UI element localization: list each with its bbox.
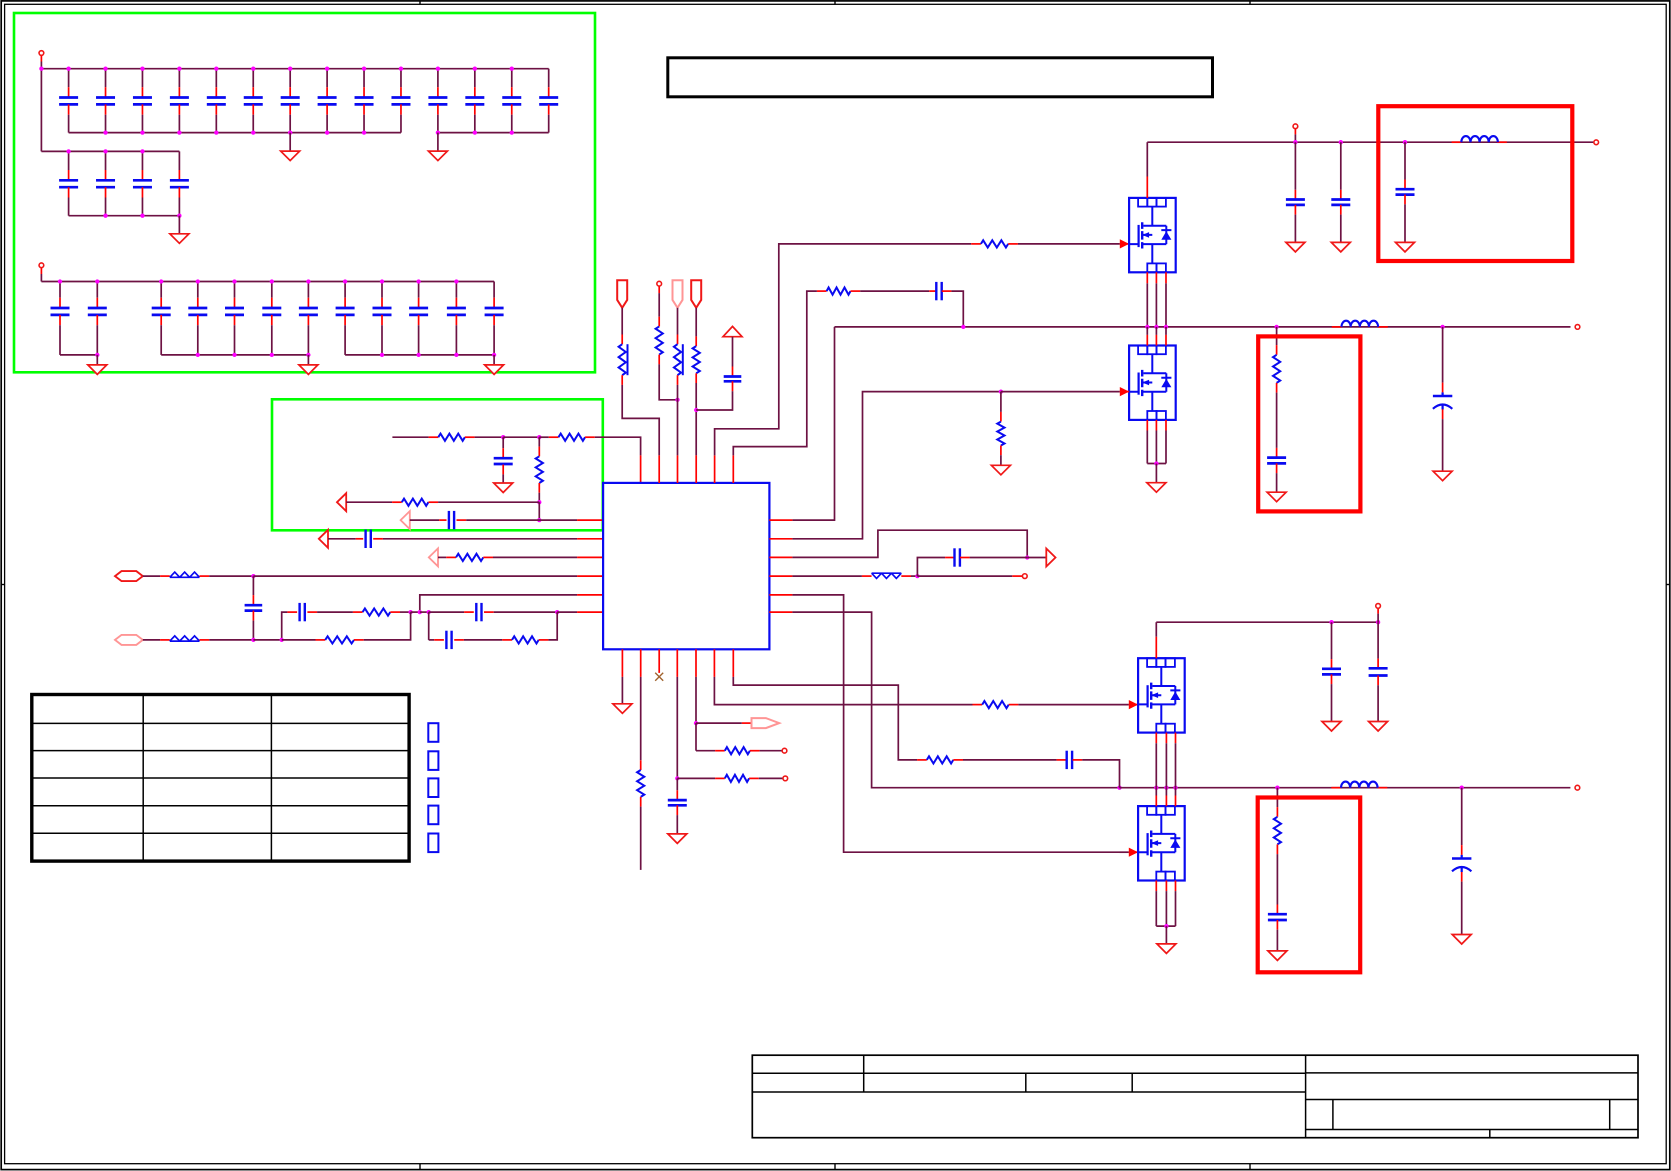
wire: [252, 576, 254, 595]
capacitor C10: [400, 69, 402, 88]
capacitor C50: [1268, 914, 1287, 920]
IC pin B7: [732, 649, 734, 677]
junction: [140, 130, 144, 134]
ground GND11: [991, 465, 1010, 475]
junction: [473, 130, 477, 134]
IC pin T3: [677, 455, 679, 483]
wire: [860, 290, 929, 292]
wire: row1 bottom bus B: [438, 132, 549, 134]
wire: [917, 575, 1012, 577]
wire: VIN2 to Q3 drain: [1155, 622, 1157, 637]
capacitor C11: [437, 69, 439, 88]
terminal TP4: [1293, 124, 1298, 129]
IC pin B4: [676, 649, 678, 677]
wire: ground stem: [307, 355, 309, 365]
capacitor C30: [493, 282, 495, 298]
wire: [548, 612, 557, 640]
revision table: [32, 695, 409, 862]
wire: [1165, 283, 1167, 327]
wire: [1018, 243, 1120, 245]
wire: [1018, 704, 1128, 706]
junction: [39, 67, 43, 71]
capacitor C3: [141, 69, 143, 88]
wire: [1155, 743, 1157, 788]
resistor R13: [981, 240, 1008, 247]
transistor Q3 (high-side buck2): [1138, 658, 1185, 732]
junction: [418, 610, 422, 614]
wire: row3 bottom bus C: [345, 354, 494, 356]
junction: [915, 574, 919, 578]
IC pin L5: [577, 594, 603, 596]
wire: [1331, 622, 1333, 659]
wire: row3 bottom bus A: [60, 354, 97, 356]
red highlight box 1 (output filter): [1378, 106, 1572, 261]
IC U1 (buck controller): [603, 483, 769, 649]
wire: [658, 287, 660, 294]
Q2 drain pins from SW rail: [1146, 327, 1148, 335]
capacitor C37: [446, 631, 451, 649]
capacitor C27: [381, 282, 383, 298]
capacitor C16: [105, 151, 107, 170]
ground GND13: [1267, 492, 1286, 502]
wire: [410, 519, 439, 521]
capacitor C21: [160, 282, 162, 298]
capacitor C44 (polarized): [1433, 392, 1452, 409]
power flag F3: [691, 280, 701, 308]
resistor R8: [512, 636, 539, 643]
transistor Q4 (low-side buck2): [1138, 806, 1185, 880]
capacitor C31: [494, 458, 513, 464]
capacitor C9: [363, 69, 365, 88]
wire: boot1 net: [733, 291, 817, 455]
transistor Q2 (low-side buck1): [1129, 346, 1176, 420]
Q1 source pins: [1146, 272, 1148, 283]
resistor R11: [674, 344, 681, 375]
capacitor C33: [366, 530, 371, 548]
resistor R9: [619, 344, 626, 375]
ground GND14: [1433, 471, 1452, 481]
IC pin R5: [769, 594, 792, 596]
capacitor C12: [474, 69, 476, 88]
junction: [362, 67, 366, 71]
wire: TP1 stub: [40, 56, 42, 62]
junction: [694, 408, 698, 412]
IC pin T4: [695, 455, 697, 483]
wire: row3 top bus: [41, 281, 494, 283]
inductor L2 red stubs: [1332, 326, 1342, 328]
ground GND4: [88, 365, 107, 375]
wire: [317, 611, 353, 613]
wire: TP2 stub: [40, 268, 42, 274]
junction: [380, 279, 384, 283]
resistor R14: [827, 288, 851, 295]
off-page connector P1: [115, 571, 143, 581]
junction: [280, 638, 284, 642]
capacitor C22: [197, 282, 199, 298]
IC pin T5: [714, 455, 716, 483]
inductor L3: [1341, 782, 1378, 788]
wire: [1155, 464, 1157, 483]
terminal TP6: [783, 776, 788, 781]
capacitor C46: [668, 800, 687, 805]
junction: [214, 130, 218, 134]
Q4 source pins: [1155, 881, 1157, 892]
wire: [1165, 891, 1167, 926]
wire: left drop to row2: [40, 69, 42, 152]
ground GND1: [281, 151, 300, 161]
junction: [961, 325, 965, 329]
wire: [1146, 283, 1148, 327]
wire: to IC pin L1: [466, 519, 577, 521]
wire: feedback divider VOUT1: [1276, 327, 1278, 345]
transistor Q1 (high-side buck1): [1129, 198, 1176, 272]
ferrite bead FB2: [170, 636, 200, 641]
IC pin B3: [658, 649, 660, 673]
capacitor C24: [271, 282, 273, 298]
capacitor C49: [1369, 668, 1388, 675]
wire: VIN1 top bus row1: [41, 68, 548, 70]
capacitor C36: [476, 603, 481, 621]
arrow marker A5: [1046, 549, 1055, 567]
wire: [696, 722, 742, 724]
junction: [251, 130, 255, 134]
wire: [732, 337, 734, 367]
wire: [143, 639, 160, 641]
junction: [436, 67, 440, 71]
junction: [159, 279, 163, 283]
wire: to IC pin L5: [420, 595, 577, 612]
IC pin L2: [577, 538, 603, 540]
capacitor C18: [178, 151, 180, 170]
junction: [196, 353, 200, 357]
capacitor C2: [105, 69, 107, 88]
resistor R18: [725, 775, 749, 782]
wire: [538, 502, 540, 520]
capacitor C42: [1396, 189, 1415, 194]
terminal TP8: [1376, 604, 1381, 609]
junction: [362, 130, 366, 134]
capacitor C1: [68, 69, 70, 88]
wire: SW1 rail: [835, 326, 1571, 328]
wire: [1294, 142, 1296, 190]
wire: SW2 rail: [1120, 787, 1571, 789]
wire: [143, 575, 160, 577]
wire: [963, 759, 1057, 761]
wire: gate LS1 net: [792, 392, 1001, 539]
wire: [695, 308, 697, 337]
arrow marker A4: [429, 548, 438, 566]
wire: SW1 sense to IC pin R1: [792, 327, 834, 520]
capacitor C51 (polarized): [1452, 855, 1471, 872]
capacitor C7: [289, 69, 291, 88]
junction: [510, 130, 514, 134]
wire: boot2 net: [733, 677, 917, 760]
gate pin arrow Q4: [1129, 848, 1138, 857]
capacitor C25: [307, 282, 309, 298]
junction: [1164, 325, 1168, 329]
wire: [659, 364, 677, 400]
resistor R3: [536, 456, 543, 483]
junction: [1154, 325, 1158, 329]
terminal VOUT2: [1575, 785, 1580, 790]
inductor L1: [1461, 136, 1498, 142]
junction: [325, 67, 329, 71]
wire: [209, 575, 253, 577]
capacitor C5: [215, 69, 217, 88]
wire: [428, 612, 430, 640]
wire: VIN to Q1 drain: [1146, 142, 1148, 176]
wire: [1155, 283, 1157, 327]
capacitor C6: [252, 69, 254, 88]
junction: [1440, 325, 1444, 329]
wire: ground stem: [96, 355, 98, 365]
ground GND5: [299, 365, 318, 375]
wire: output cap 2: [1461, 788, 1463, 845]
junction: [1329, 620, 1333, 624]
junction: [510, 67, 514, 71]
wire: [1120, 851, 1129, 853]
junction: [537, 500, 541, 504]
junction: [270, 279, 274, 283]
capacitor C32: [449, 511, 454, 529]
wire: SW2 sense net: [792, 612, 1119, 788]
wire: [621, 677, 623, 704]
junction: [1154, 786, 1158, 790]
resistor R17: [637, 770, 644, 797]
junction: [177, 67, 181, 71]
wire: [1340, 142, 1342, 190]
wire: [282, 639, 316, 641]
junction: [999, 389, 1003, 393]
wire: [677, 385, 679, 456]
junction: [1164, 924, 1168, 928]
wire: [1404, 142, 1406, 179]
terminal TP3: [657, 281, 662, 286]
wire: [696, 750, 715, 752]
wire: to IC pin L6: [557, 611, 577, 613]
junction: [177, 214, 181, 218]
capacitor C14: [548, 69, 550, 88]
wire: [539, 436, 549, 438]
wire: comp out net: [792, 530, 1027, 557]
junction: [196, 279, 200, 283]
resistor R19: [725, 747, 750, 754]
junction: [408, 610, 412, 614]
wire: [1175, 891, 1177, 926]
wire: gate HS1 net: [715, 244, 972, 456]
arrow marker A1: [337, 493, 346, 511]
wire: [1001, 391, 1120, 393]
junction: [251, 638, 255, 642]
wire: [502, 437, 504, 448]
terminal TP1: [39, 51, 44, 56]
wire: row3 bottom bus B: [161, 354, 308, 356]
ferrite bead FB3: [872, 573, 902, 578]
junction: [675, 776, 679, 780]
junction: [436, 130, 440, 134]
gate pin arrow Q1: [1120, 239, 1129, 248]
junction: [501, 435, 505, 439]
terminal VIN1: [1594, 140, 1599, 145]
power symbol VCC: [723, 326, 742, 336]
wire: comp row: [392, 436, 428, 438]
power flag F1: [617, 280, 627, 308]
wire: [695, 383, 697, 455]
green highlight box 1 (input decoupling caps): [14, 13, 595, 372]
terminal TP2: [39, 263, 44, 268]
junction: [1275, 786, 1279, 790]
inductor L1 red stubs: [1452, 141, 1462, 143]
capacitor C41: [1331, 200, 1350, 205]
resistor R2: [559, 434, 586, 441]
wire: row1 bottom bus A: [69, 132, 401, 134]
terminal TP7: [782, 748, 787, 753]
capacitor C29: [455, 282, 457, 298]
capacitor C47: [1067, 751, 1072, 769]
IC pin T6: [732, 455, 734, 483]
junction: [103, 214, 107, 218]
resistor R15: [997, 422, 1004, 446]
junction: [140, 214, 144, 218]
inductor L2: [1342, 321, 1379, 327]
junction: [380, 353, 384, 357]
wire: [1082, 760, 1119, 788]
wire: gate pulldown: [1000, 392, 1002, 412]
wire: [951, 291, 963, 327]
junction: [1403, 140, 1407, 144]
wire: feedback divider VOUT2: [1276, 788, 1278, 807]
ground GND9: [1331, 242, 1350, 252]
wire: [640, 677, 642, 760]
gate pin arrow Q3: [1129, 700, 1138, 709]
junction: [537, 435, 541, 439]
IC pin T1: [640, 455, 642, 483]
junction: [103, 130, 107, 134]
inductor L3 red stubs: [1331, 787, 1341, 789]
junction: [454, 279, 458, 283]
junction: [140, 149, 144, 153]
wire: [494, 611, 558, 613]
capacitor C20: [96, 282, 98, 298]
IC pin R1: [769, 519, 792, 521]
wire: [621, 308, 623, 335]
capacitor C15: [68, 151, 70, 170]
junction: [288, 67, 292, 71]
capacitor C38: [724, 377, 742, 382]
capacitor C13: [511, 69, 513, 88]
junction: [306, 279, 310, 283]
terminal VOUT1: [1575, 325, 1580, 330]
ferrite bead FB1: [170, 572, 200, 577]
junction: [555, 610, 559, 614]
wire: [253, 639, 281, 641]
wire: ground stem: [289, 133, 291, 152]
IC pin R3: [769, 556, 792, 558]
wire: row2 top bus: [41, 150, 179, 152]
wire: Q2 source join: [1147, 463, 1166, 465]
junction: [270, 353, 274, 357]
junction: [1339, 140, 1343, 144]
resistor R7: [325, 636, 354, 643]
junction: [214, 67, 218, 71]
wire: [1155, 891, 1157, 926]
wire: [622, 385, 659, 456]
off-page connector P2: [115, 635, 143, 645]
capacitor C26: [344, 282, 346, 298]
junction: [343, 279, 347, 283]
IC pin L4: [577, 575, 603, 577]
junction: [427, 610, 431, 614]
capacitor C8: [326, 69, 328, 88]
wire: [1276, 854, 1278, 904]
IC pin L3: [577, 556, 603, 558]
junction: [1154, 461, 1158, 465]
junction: [416, 279, 420, 283]
IC pin L6: [577, 611, 603, 613]
gate pin arrow Q2: [1120, 387, 1129, 396]
resistor R12: [693, 346, 700, 373]
junction: [306, 353, 310, 357]
junction: [1274, 325, 1278, 329]
resistor R4: [402, 499, 429, 506]
IC pin R6: [769, 611, 792, 613]
wire: [917, 558, 945, 577]
junction: [473, 67, 477, 71]
wire: [346, 501, 392, 503]
junction: [1293, 140, 1297, 144]
junction: [95, 353, 99, 357]
wire: [677, 308, 679, 335]
no-connect X: [655, 673, 663, 681]
signal flag F4: [752, 718, 780, 728]
wire: [1146, 431, 1148, 464]
capacitor C48: [1322, 669, 1341, 675]
ground GND18: [1369, 722, 1388, 732]
capacitor C23: [234, 282, 236, 298]
wire: VIN2 rail: [1156, 621, 1378, 623]
wire: [538, 437, 540, 446]
wire: [1294, 129, 1296, 134]
resistor R21: [927, 756, 954, 763]
junction: [232, 353, 236, 357]
capacitor C17: [141, 151, 143, 170]
wire: to IC pin L4: [253, 575, 577, 577]
junction: [1460, 786, 1464, 790]
wire: [438, 556, 446, 558]
IC pin L1: [577, 519, 603, 521]
ground GND16: [668, 834, 687, 844]
wire: [464, 639, 502, 641]
ground GND20: [1268, 951, 1287, 961]
junction: [103, 67, 107, 71]
capacitor C4: [178, 69, 180, 88]
junction: [251, 574, 255, 578]
ground GND8: [1286, 242, 1305, 252]
wire: [400, 611, 411, 613]
resistor R1: [438, 434, 465, 441]
ground GND21: [1452, 935, 1471, 945]
wire: [503, 436, 539, 438]
red highlight box 2 (feedback divider 1): [1258, 336, 1360, 511]
title block: [752, 1055, 1638, 1138]
wire: ground stem: [437, 133, 439, 152]
wire: [328, 538, 356, 540]
capacitor C28: [418, 282, 420, 298]
ground GND17: [1322, 722, 1341, 732]
green highlight box 2 (feedback network): [272, 399, 603, 530]
junction: [1117, 786, 1121, 790]
resistor R20: [982, 701, 1009, 708]
